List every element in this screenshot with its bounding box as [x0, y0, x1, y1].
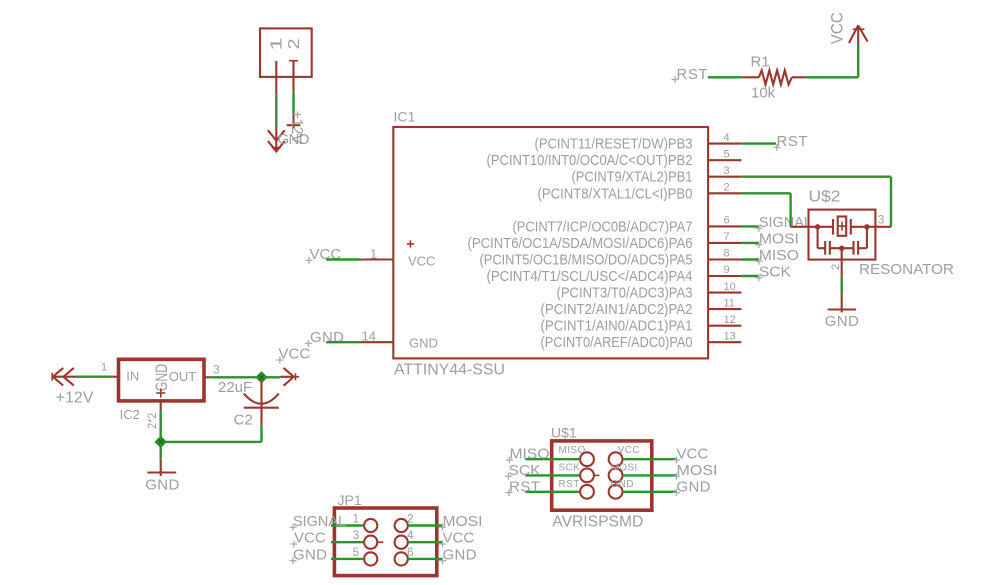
IC2 pin name GND (rotated) — [152, 364, 171, 392]
wire C2 to GND rail — [161, 425, 262, 442]
svg-text:MOSI: MOSI — [759, 230, 799, 247]
wire RST to R1 — [708, 76, 742, 78]
JP1 name — [338, 492, 362, 508]
svg-text:RST: RST — [509, 478, 540, 495]
svg-text:13: 13 — [724, 330, 736, 342]
svg-text:VCC: VCC — [827, 12, 846, 44]
JP1 pad 5 — [364, 552, 377, 565]
svg-text:10k: 10k — [751, 85, 776, 102]
wire GND to pin 14 — [326, 341, 361, 343]
wire R1 to VCC — [806, 44, 858, 77]
GND net label at pin 14 — [305, 329, 344, 347]
IC1 pin 9 stub — [708, 275, 741, 277]
MOSI net label at pin 7 — [755, 230, 799, 248]
RST net label left of U$1 — [506, 478, 541, 496]
IC2 pin name OUT — [169, 369, 197, 384]
IC1 pin 3 number — [724, 165, 730, 177]
GND net label — [278, 131, 310, 148]
VCC net label right of JP1 — [439, 530, 474, 548]
svg-text:+12V: +12V — [56, 390, 94, 407]
svg-text:SCK: SCK — [759, 264, 791, 281]
wire IC2 GND pin down — [159, 410, 161, 460]
IC2 pin name IN — [126, 369, 139, 384]
wire VCC to JP1 pad3 — [331, 541, 364, 543]
IC1 pin name PA1 — [541, 318, 693, 335]
capacitor right (internal) — [854, 241, 867, 255]
JP1 pad 6 — [395, 552, 408, 565]
wire OUT to junction and VCC arrow — [211, 376, 281, 378]
svg-text:2: 2 — [724, 182, 730, 194]
svg-text:(PCINT1/AIN0/ADC1)PA1: (PCINT1/AIN0/ADC1)PA1 — [541, 318, 693, 335]
IC1 pin 11 stub — [708, 308, 741, 310]
U$1 value AVRISPSMD — [552, 514, 643, 531]
IC2 pin 2 name 2*2 (rotated) — [145, 412, 159, 428]
svg-text:SCK: SCK — [559, 463, 581, 474]
supply VCC arrow (top right) — [849, 25, 868, 44]
left drop wire — [817, 227, 819, 248]
right drop wire — [866, 227, 868, 248]
pin 2 lead — [289, 61, 298, 92]
+12V arrow (left) — [52, 368, 83, 386]
svg-text:(PCINT11/RESET/DW)PB3: (PCINT11/RESET/DW)PB3 — [535, 136, 693, 153]
svg-text:RESONATOR: RESONATOR — [859, 261, 954, 278]
U$2 pin 3 number — [878, 213, 885, 227]
supply GND arrow — [268, 128, 285, 152]
GND label under resonator — [825, 313, 859, 330]
wire pin1 to GND — [275, 94, 277, 127]
U$2 name — [809, 189, 841, 206]
svg-text:(PCINT5/OC1B/MISO/DO/ADC5)PA5: (PCINT5/OC1B/MISO/DO/ADC5)PA5 — [480, 252, 693, 269]
IC1 pin name PA6 — [468, 235, 693, 252]
svg-text:MISO: MISO — [559, 445, 586, 456]
svg-text:22uF: 22uF — [218, 379, 252, 396]
GND net label right of U$1 — [673, 478, 711, 496]
pin 2 label — [285, 38, 303, 49]
svg-text:U$2: U$2 — [809, 189, 841, 206]
IC2 name — [120, 407, 140, 422]
IC1 pin 7 stub — [708, 242, 741, 244]
IC1 name — [394, 109, 416, 125]
wire pin2 to GND — [841, 277, 843, 294]
wire SCK to U$1 — [525, 474, 580, 476]
svg-text:MOSI: MOSI — [443, 513, 483, 530]
svg-text:SIGNAL: SIGNAL — [759, 214, 812, 231]
IC1 pin 2 stub — [708, 192, 741, 194]
C2 value 22uF — [218, 379, 252, 396]
IC1 pin 7 number — [724, 231, 730, 243]
svg-text:(PCINT7/ICP/OC0B/ADC7)PA7: (PCINT7/ICP/OC0B/ADC7)PA7 — [513, 218, 693, 235]
IC1 pin name PA2 — [541, 301, 693, 318]
wire stub pin9 — [741, 275, 759, 277]
ground symbol under IC2 — [147, 460, 176, 476]
svg-text:SIGNAL: SIGNAL — [293, 513, 346, 530]
IC1 pin 6 stub — [708, 225, 741, 227]
svg-text:IN: IN — [126, 369, 139, 384]
header U$1 AVRISP body — [552, 441, 652, 510]
U$1 pad names — [559, 445, 641, 490]
svg-text:6: 6 — [724, 215, 730, 227]
JP1 pin numbers — [353, 512, 415, 559]
node junction center — [839, 246, 844, 251]
GND net label left of JP1 — [290, 546, 328, 564]
IC1 pin name PA5 — [480, 252, 693, 269]
svg-text:(PCINT9/XTAL2)PB1: (PCINT9/XTAL2)PB1 — [572, 169, 693, 186]
R1 name — [751, 54, 770, 71]
svg-text:MOSI: MOSI — [611, 463, 638, 474]
MISO net label at pin 8 — [755, 247, 799, 265]
U$1 pad VCC — [609, 452, 623, 466]
ground symbol under resonator — [828, 294, 856, 312]
IC1 pin 14 number — [362, 329, 376, 344]
svg-text:R1: R1 — [751, 54, 770, 71]
IC1 pin 13 number — [724, 330, 736, 342]
node junction left — [815, 224, 820, 229]
R1 value 10k — [751, 85, 776, 102]
svg-text:1: 1 — [353, 512, 360, 526]
svg-text:(PCINT0/AREF/ADC0)PA0: (PCINT0/AREF/ADC0)PA0 — [541, 334, 693, 351]
svg-text:RST: RST — [559, 479, 580, 490]
wire stub pin8 — [741, 258, 759, 260]
voltage regulator IC2 body — [119, 359, 205, 401]
U$2 pin 3 lead — [851, 226, 891, 228]
VCC net label left of JP1 — [291, 530, 326, 548]
svg-text:IC2: IC2 — [120, 407, 140, 422]
wire pin2 to +12V — [292, 92, 294, 114]
IC1 pin name PA4 — [487, 268, 693, 285]
svg-text:2*2: 2*2 — [145, 412, 159, 428]
wire stub pin6 — [741, 225, 759, 227]
wire between caps — [830, 247, 854, 249]
U$1 pad SCK — [580, 469, 599, 483]
label RST (top) — [672, 66, 708, 83]
IC1 pin 10 number — [724, 281, 736, 293]
svg-text:8: 8 — [724, 248, 730, 260]
wire JP1 pad2 to MOSI — [408, 524, 442, 526]
U$1 pad RST — [580, 485, 594, 499]
IC1 pin 6 number — [724, 215, 730, 227]
JP1 pad 2 — [395, 519, 408, 532]
svg-text:OUT: OUT — [169, 369, 197, 384]
svg-text:RST: RST — [777, 133, 808, 150]
IC1 pin 14 stub — [361, 341, 393, 343]
svg-text:5: 5 — [353, 545, 360, 559]
svg-text:AVRISPSMD: AVRISPSMD — [552, 514, 643, 531]
svg-text:GND: GND — [409, 336, 438, 351]
svg-text:4: 4 — [407, 528, 414, 542]
GND net label right of JP1 — [439, 546, 477, 564]
IC1 pin 9 number — [724, 264, 730, 276]
wire VCC to pin 1 — [326, 258, 361, 260]
JP1 pad 1 — [364, 519, 377, 532]
svg-text:1: 1 — [101, 362, 107, 374]
IC1 VCC pin marker + — [407, 240, 414, 247]
svg-text:C2: C2 — [234, 411, 253, 428]
IC1 pin name PA7 — [513, 218, 693, 235]
+12V label — [56, 390, 94, 407]
svg-text:(PCINT4/T1/SCL/USC</ADC4)PA4: (PCINT4/T1/SCL/USC</ADC4)PA4 — [487, 268, 693, 285]
wire U$1 to MOSI right — [623, 474, 677, 476]
wire RST to U$1 — [525, 491, 580, 493]
svg-text:GND: GND — [152, 364, 171, 392]
IC1 pin name PB1 — [572, 169, 693, 186]
crystal element — [833, 217, 851, 236]
IC1 pin name GND — [409, 336, 438, 351]
SCK net label at pin 9 — [755, 264, 791, 282]
IC1 pin 4 stub — [708, 143, 741, 145]
VCC arrow (right of C2) — [280, 368, 299, 386]
VCC net label at pin 1 — [306, 246, 342, 264]
connector J (2-pad box) — [260, 28, 312, 77]
wire pin3 to resonator pin3 — [741, 177, 891, 227]
svg-text:GND: GND — [825, 313, 859, 330]
pin 1 lead — [275, 61, 277, 94]
svg-text:GND: GND — [293, 546, 327, 563]
wire +12V to IC2 pin1 — [77, 376, 112, 378]
U$1 name — [551, 425, 577, 441]
header JP1 body — [334, 508, 436, 576]
MOSI net label right of JP1 — [439, 513, 483, 531]
svg-text:VCC: VCC — [443, 530, 475, 547]
IC1 pin 13 stub — [708, 341, 741, 343]
svg-text:GND: GND — [145, 477, 179, 494]
U$2 pin 1 lead — [791, 226, 833, 228]
U$2 pin 2 lead — [841, 248, 843, 277]
svg-text:VCC: VCC — [677, 446, 709, 463]
svg-text:MISO: MISO — [759, 247, 799, 264]
svg-text:U$1: U$1 — [551, 425, 577, 441]
svg-text:ATTINY44-SSU: ATTINY44-SSU — [394, 362, 505, 379]
IC1 pin 8 stub — [708, 258, 741, 260]
U$1 pad MISO — [580, 452, 594, 466]
IC1 pin 1 stub — [361, 258, 393, 260]
SIGNAL net label at pin 6 — [755, 214, 812, 232]
wire pin4 to RST — [741, 142, 776, 144]
wire U$1 to GND right — [623, 491, 677, 493]
svg-text:GND: GND — [611, 479, 634, 490]
IC2 pin 1 number — [101, 362, 107, 374]
svg-text:1: 1 — [268, 37, 285, 50]
capacitor left (internal) — [818, 241, 830, 255]
GND label under IC2 — [145, 477, 179, 494]
resistor R1 — [742, 70, 806, 84]
svg-text:VCC: VCC — [618, 445, 640, 456]
MOSI net label right of U$1 — [673, 462, 718, 480]
IC1 pin name VCC — [408, 254, 435, 269]
U$2 pin 2 number (rotated) — [830, 264, 842, 270]
IC1 value ATTINY44-SSU — [394, 362, 505, 379]
svg-text:14: 14 — [362, 329, 376, 344]
+12V supply bar — [287, 113, 301, 128]
+12V net label (rotated) — [288, 111, 305, 145]
IC1 pin 10 stub — [708, 292, 741, 294]
svg-text:1: 1 — [370, 246, 377, 261]
IC2 pin 3 stub — [204, 376, 211, 378]
svg-text:IC1: IC1 — [394, 109, 416, 125]
wire U$1 to VCC right — [623, 458, 677, 460]
node junction GND rail (diamond) — [154, 436, 166, 448]
svg-text:MOSI: MOSI — [677, 462, 718, 479]
IC1 pin 4 number — [724, 132, 730, 144]
C2 name — [234, 411, 253, 428]
VCC net label above arrow — [276, 346, 310, 364]
svg-text:RST: RST — [677, 66, 708, 83]
IC1 pin name PB0 — [538, 185, 693, 202]
svg-text:GND: GND — [677, 478, 711, 495]
wire stub pin7 — [741, 242, 759, 244]
IC1 pin name PA3 — [557, 285, 693, 302]
JP1 pad 4 — [395, 536, 408, 549]
svg-text:4: 4 — [724, 132, 730, 144]
svg-text:2: 2 — [407, 512, 414, 526]
svg-text:(PCINT2/AIN1/ADC2)PA2: (PCINT2/AIN1/ADC2)PA2 — [541, 301, 693, 318]
IC1 pin 8 number — [724, 248, 730, 260]
IC1 pin name PB2 — [487, 152, 693, 169]
svg-text:9: 9 — [724, 264, 730, 276]
wire SIGNAL to JP1 pad1 — [331, 524, 364, 526]
pin 1 label — [268, 37, 285, 50]
JP1 pad 3 — [364, 536, 383, 549]
SIGNAL net label left of JP1 — [290, 513, 347, 531]
IC1 pin 12 number — [724, 314, 736, 326]
svg-text:3: 3 — [213, 363, 220, 377]
svg-text:11: 11 — [724, 297, 735, 309]
svg-text:JP1: JP1 — [338, 492, 362, 508]
svg-text:2: 2 — [830, 264, 842, 270]
wire GND to JP1 pad5 — [331, 558, 364, 560]
svg-text:3: 3 — [353, 528, 360, 542]
svg-text:5: 5 — [724, 148, 730, 160]
svg-text:3: 3 — [724, 165, 730, 177]
wire pin2 to resonator pin1 — [741, 193, 790, 227]
IC1 pin 2 number — [724, 182, 730, 194]
capacitor C2 plates — [244, 394, 279, 408]
IC1 pin 1 number — [370, 246, 377, 261]
svg-text:VCC: VCC — [294, 530, 326, 547]
IC1 pin 11 number — [724, 297, 735, 309]
IC1 pin name PB3 — [535, 136, 693, 153]
svg-text:2: 2 — [285, 38, 303, 49]
svg-text:+12V: +12V — [288, 111, 305, 145]
wire JP1 pad4 to VCC — [408, 541, 442, 543]
svg-text:(PCINT3/T0/ADC3)PA3: (PCINT3/T0/ADC3)PA3 — [557, 285, 693, 302]
VCC net label (rotated) — [827, 12, 846, 44]
U$1 pad MOSI — [609, 469, 623, 483]
svg-text:3: 3 — [878, 213, 885, 227]
wire JP1 pad6 to GND — [408, 558, 442, 560]
IC1 pin name PA0 — [541, 334, 693, 351]
RST net label at pin 4 — [773, 133, 807, 151]
IC2 pin 2 stub — [160, 401, 162, 410]
svg-text:6: 6 — [407, 545, 414, 559]
wire MISO to U$1 — [525, 458, 580, 460]
MISO net label left of U$1 — [506, 446, 550, 464]
svg-text:GND: GND — [443, 546, 477, 563]
resonator U$2 body — [809, 210, 876, 260]
svg-text:(PCINT10/INT0/OC0A/C<OUT)PB2: (PCINT10/INT0/OC0A/C<OUT)PB2 — [487, 152, 693, 169]
IC1 pin 3 stub — [708, 176, 741, 178]
svg-text:(PCINT6/OC1A/SDA/MOSI/ADC6)PA6: (PCINT6/OC1A/SDA/MOSI/ADC6)PA6 — [468, 235, 693, 252]
op-amp? no: IC1 ATTINY44 body — [393, 127, 708, 358]
svg-text:12: 12 — [724, 314, 736, 326]
IC1 pin 5 stub — [708, 159, 741, 161]
capacitor C2 lead — [260, 381, 262, 426]
IC2 pin 1 stub — [112, 376, 118, 378]
node junction at OUT (diamond) — [255, 371, 267, 383]
IC2 GND pin marker + — [156, 389, 165, 398]
svg-text:GND: GND — [310, 329, 344, 346]
U$1 pad GND — [609, 485, 623, 499]
svg-text:10: 10 — [724, 281, 736, 293]
svg-text:VCC: VCC — [408, 254, 435, 269]
node junction right — [864, 224, 869, 229]
svg-text:7: 7 — [724, 231, 730, 243]
IC1 pin 12 stub — [708, 325, 741, 327]
svg-text:MISO: MISO — [510, 446, 550, 463]
IC2 pin 3 number — [213, 363, 220, 377]
svg-text:(PCINT8/XTAL1/CL<I)PB0: (PCINT8/XTAL1/CL<I)PB0 — [538, 185, 693, 202]
svg-text:SCK: SCK — [509, 462, 541, 479]
IC1 pin 5 number — [724, 148, 730, 160]
VCC net label right of U$1 — [673, 446, 708, 464]
U$2 value RESONATOR — [859, 261, 954, 278]
SCK net label left of U$1 — [505, 462, 541, 480]
